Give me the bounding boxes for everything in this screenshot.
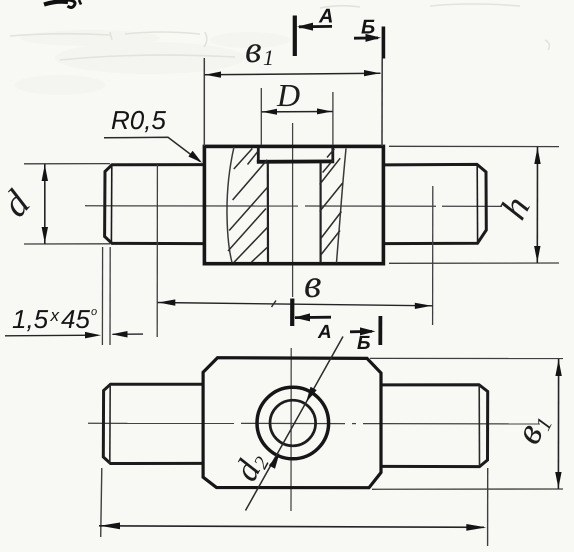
- counterbore bottom shoulder: [257, 159, 334, 163]
- arrowhead overall left: [100, 523, 120, 530]
- section mark А (lower): arrow: [294, 313, 331, 321]
- leader line d2: [246, 337, 344, 511]
- dimension line plan в1: [557, 359, 559, 489]
- label D: [277, 85, 300, 106]
- label Б (lower): [357, 336, 369, 349]
- break (wavy) line left: [227, 147, 234, 263]
- label в1 (rotated): [521, 415, 552, 447]
- leader line R0,5: [104, 137, 200, 161]
- break (wavy) line right: [337, 149, 347, 263]
- extension line bottom for plan в1: [372, 488, 563, 490]
- dimension line d: [44, 164, 46, 244]
- left shaft (front view): [105, 165, 204, 244]
- dimension line в1: [204, 73, 380, 75]
- extension lines chamfer: [101, 247, 103, 345]
- section mark А (top): arrow: [297, 23, 332, 31]
- hole right wall: [320, 163, 322, 263]
- section mark А (top): tick: [293, 16, 297, 57]
- extension line top for h: [389, 145, 559, 147]
- faint erased strokes top: [10, 4, 549, 60]
- dimension line в: [157, 303, 432, 306]
- label А (top): [319, 9, 332, 23]
- arrowheads h: [534, 147, 540, 164]
- horizontal centerline (plan): [88, 422, 540, 425]
- label Б (top): [361, 20, 374, 34]
- label в1: [246, 44, 271, 65]
- dimension line D: [261, 111, 332, 113]
- hatching right band: [320, 149, 343, 255]
- extension line top for d: [24, 163, 110, 165]
- extension line bottom for d: [24, 243, 110, 245]
- arrowheads в1: [205, 72, 221, 78]
- arrowhead overall right: [466, 524, 486, 531]
- label 1,5x45: [13, 309, 97, 331]
- arrowhead R0,5: [188, 151, 202, 163]
- label d: [0, 187, 32, 218]
- hatching left band: [228, 149, 268, 263]
- extension line left for D: [260, 88, 262, 145]
- right shaft (plan): [381, 385, 488, 467]
- arrowhead d2 upper: [306, 387, 317, 403]
- dimension line h: [536, 147, 538, 263]
- hole left wall: [267, 163, 269, 263]
- extension line left for в1: [203, 58, 205, 146]
- counterbore right wall: [331, 147, 334, 161]
- inner circle (hole): [270, 400, 316, 446]
- extension line top for plan в1: [370, 357, 563, 359]
- extension line bottom for h: [389, 262, 559, 264]
- extension line right for в1 / Б continuation: [381, 59, 383, 147]
- vertical centerline (front view): [292, 123, 294, 297]
- arrowheads D: [262, 109, 277, 115]
- section mark Б (top): arrow: [354, 34, 381, 42]
- tick on в line: [272, 301, 277, 308]
- vertical centerline (plan): [290, 348, 292, 511]
- section mark Б (lower): arrow: [350, 327, 376, 335]
- section mark Б (lower): tick: [378, 316, 382, 345]
- right shaft (front view): [384, 164, 487, 243]
- extension line right for D: [332, 92, 334, 145]
- horizontal centerline (front view): [85, 205, 502, 208]
- dimension arrows chamfer: [5, 334, 98, 337]
- label А (lower): [318, 325, 331, 338]
- eraser smudges top: [15, 30, 290, 95]
- counterbore left wall: [257, 147, 260, 162]
- outer circle (counterbore): [257, 387, 329, 459]
- arrowheads в: [158, 299, 175, 305]
- central block (plan, chamfered corners): [203, 358, 381, 488]
- label d2: [233, 449, 269, 485]
- extension line left (bottom dim): [101, 468, 102, 537]
- arrowhead d2 lower: [269, 453, 280, 469]
- extension line right (bottom dim): [487, 468, 489, 546]
- arrowheads plan в1: [555, 359, 561, 376]
- section mark А (lower): tick: [290, 299, 294, 327]
- dimension line overall: [99, 526, 484, 528]
- label в: [305, 278, 321, 297]
- arrowheads d: [42, 165, 48, 182]
- central block (front view): [204, 146, 383, 263]
- extension line left for в: [156, 165, 158, 338]
- cropped text remnant "Др" top-left: [44, 0, 81, 8]
- label h: [499, 194, 530, 221]
- label R0,5: [112, 111, 166, 133]
- section mark Б (top): tick: [382, 27, 386, 59]
- extension line right for в: [432, 186, 434, 325]
- left shaft (plan): [103, 384, 203, 463]
